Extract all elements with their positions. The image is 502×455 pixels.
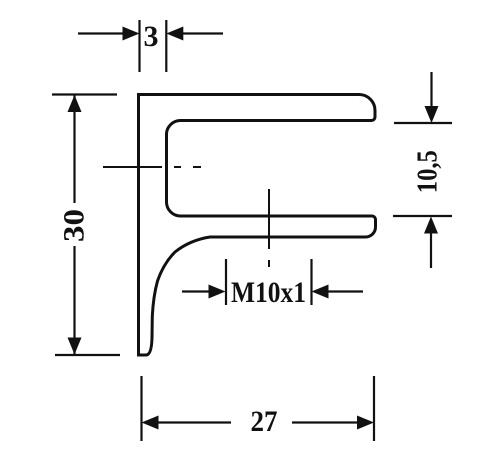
svg-text:27: 27 (251, 405, 278, 438)
svg-text:3: 3 (144, 20, 159, 53)
svg-text:M10x1: M10x1 (231, 276, 306, 309)
svg-text:10,5: 10,5 (413, 150, 444, 193)
svg-text:30: 30 (58, 209, 91, 242)
